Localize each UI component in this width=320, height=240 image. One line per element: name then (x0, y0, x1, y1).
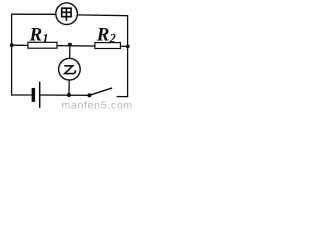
wire right border (127, 15, 129, 97)
switch S (87, 88, 112, 98)
battery (32, 82, 40, 108)
wire bottom-right (117, 96, 129, 98)
resistor R2 (95, 43, 121, 49)
node right-border / middle-row junction (126, 45, 130, 49)
ammeter 甲 (meter A) (56, 3, 78, 25)
wire middle row (12, 45, 128, 46)
wire left border (11, 14, 13, 96)
node bottom-wire / meter-B branch junction (67, 93, 71, 97)
node middle-row / meter-B branch junction (68, 43, 72, 47)
wire meter-B branch (69, 46, 70, 95)
wire top-left (12, 13, 57, 15)
wire top-right (78, 14, 128, 17)
resistor R1 (28, 42, 57, 48)
node left-border / middle-row junction (10, 43, 14, 47)
wire bottom-left (12, 94, 32, 96)
voltmeter 乙 (meter B) (59, 58, 81, 80)
wire bottom-middle (40, 94, 90, 96)
svg-text:manfen5.com: manfen5.com (62, 100, 133, 110)
